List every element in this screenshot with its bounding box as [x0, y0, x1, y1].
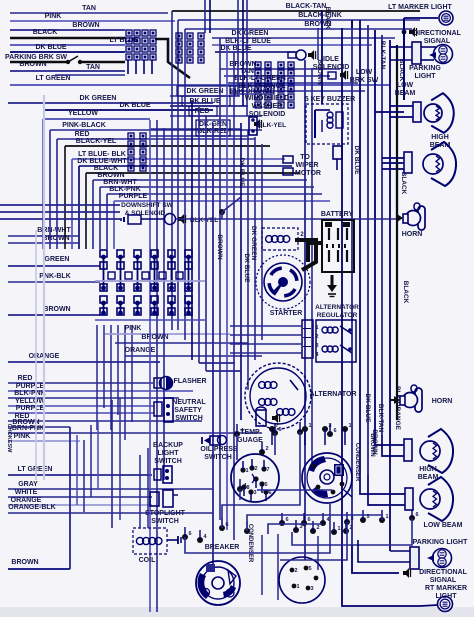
- svg-text:LIGHT: LIGHT: [158, 450, 180, 457]
- svg-text:1: 1: [296, 584, 299, 590]
- svg-text:CONDENSER: CONDENSER: [354, 443, 360, 482]
- svg-text:WASHER: WASHER: [252, 103, 283, 110]
- svg-text:DK BLUE: DK BLUE: [189, 98, 220, 105]
- svg-text:PURPLE: PURPLE: [16, 405, 45, 412]
- svg-text:3: 3: [350, 516, 353, 522]
- svg-text:DIRECTIONAL: DIRECTIONAL: [419, 569, 468, 576]
- svg-text:SIGNAL: SIGNAL: [424, 38, 451, 45]
- svg-text:DK GREEN: DK GREEN: [187, 88, 224, 95]
- svg-text:DK GREEN: DK GREEN: [80, 95, 117, 102]
- svg-text:BLK-TAN: BLK-TAN: [377, 404, 384, 433]
- svg-text:CHOKESW: CHOKESW: [6, 424, 12, 454]
- svg-text:SWITCH: SWITCH: [151, 518, 179, 525]
- svg-text:BROWN: BROWN: [11, 559, 38, 566]
- svg-text:SOLENOID: SOLENOID: [313, 64, 350, 71]
- svg-text:BATTERY: BATTERY: [321, 211, 354, 218]
- svg-text:DK BLUE: DK BLUE: [119, 102, 150, 109]
- svg-text:DOWNSHIFT SW: DOWNSHIFT SW: [121, 202, 173, 209]
- svg-text:BROWN: BROWN: [97, 172, 124, 179]
- svg-text:LT MARKER LIGHT: LT MARKER LIGHT: [388, 4, 452, 11]
- svg-text:& SOLENOID: & SOLENOID: [125, 210, 166, 217]
- svg-text:PURPLE: PURPLE: [119, 193, 148, 200]
- svg-text:BREAKER: BREAKER: [205, 544, 240, 551]
- svg-text:6: 6: [307, 517, 310, 523]
- svg-text:2: 2: [349, 525, 352, 531]
- svg-text:ALTERNATOR: ALTERNATOR: [309, 391, 356, 398]
- svg-text:6: 6: [285, 517, 288, 523]
- svg-text:BLK-PNK: BLK-PNK: [14, 390, 46, 397]
- svg-text:STOPLIGHT: STOPLIGHT: [145, 510, 186, 517]
- svg-text:IDLE: IDLE: [323, 56, 339, 63]
- svg-text:RED: RED: [195, 108, 210, 115]
- svg-text:1: 1: [245, 468, 248, 474]
- svg-text:8: 8: [246, 485, 249, 491]
- svg-text:REGULATOR: REGULATOR: [317, 312, 358, 319]
- svg-text:6: 6: [225, 522, 228, 528]
- svg-text:DK BLUE: DK BLUE: [238, 158, 245, 188]
- svg-text:BLK-LT BLUE: BLK-LT BLUE: [225, 38, 271, 45]
- svg-text:PINK: PINK: [125, 325, 142, 332]
- svg-text:LIGHT: LIGHT: [415, 73, 437, 80]
- svg-text:PINK-BLACK: PINK-BLACK: [62, 122, 106, 129]
- svg-text:PARKING: PARKING: [409, 65, 441, 72]
- svg-text:5: 5: [264, 482, 267, 488]
- svg-text:SWITCH: SWITCH: [204, 454, 232, 461]
- svg-text:RT MARKER: RT MARKER: [425, 585, 467, 592]
- svg-text:YELLOW: YELLOW: [68, 110, 98, 117]
- svg-text:PURPLE: PURPLE: [16, 383, 45, 390]
- svg-text:DIRECTIONAL: DIRECTIONAL: [413, 30, 462, 37]
- svg-text:FLASHER: FLASHER: [173, 378, 206, 385]
- svg-text:BRN-PNK: BRN-PNK: [12, 425, 44, 432]
- svg-text:5 KEY BUZZER: 5 KEY BUZZER: [305, 96, 355, 103]
- svg-text:ORANGE-BLK: ORANGE-BLK: [8, 504, 55, 511]
- svg-text:STARTER: STARTER: [270, 310, 303, 317]
- svg-text:PARKING LIGHT: PARKING LIGHT: [413, 539, 468, 546]
- svg-text:PINK: PINK: [14, 433, 31, 440]
- svg-text:BLACK: BLACK: [94, 165, 119, 172]
- svg-text:BLK-TAN: BLK-TAN: [379, 41, 386, 70]
- svg-text:DK GREEN: DK GREEN: [232, 30, 269, 37]
- svg-text:RED: RED: [75, 131, 90, 138]
- svg-text:HIGH: HIGH: [419, 466, 437, 473]
- svg-text:6: 6: [268, 490, 271, 496]
- svg-text:NEUTRAL: NEUTRAL: [172, 399, 206, 406]
- svg-text:BROWN: BROWN: [43, 306, 70, 313]
- svg-text:LOW BEAM: LOW BEAM: [424, 522, 463, 529]
- svg-text:GREEN: GREEN: [45, 256, 70, 263]
- svg-text:5: 5: [278, 427, 281, 433]
- svg-text:BLK-YEL: BLK-YEL: [190, 217, 218, 224]
- svg-text:TO: TO: [300, 154, 310, 161]
- svg-text:1: 1: [308, 423, 311, 429]
- svg-text:ORANGE: ORANGE: [125, 347, 156, 354]
- svg-text:2: 2: [254, 466, 257, 472]
- svg-text:3: 3: [310, 586, 313, 592]
- svg-text:MOTOR: MOTOR: [295, 170, 321, 177]
- svg-text:YELLOW: YELLOW: [15, 398, 45, 405]
- svg-text:DK BLUE: DK BLUE: [364, 394, 371, 424]
- svg-text:2: 2: [316, 525, 319, 531]
- svg-text:TAN: TAN: [82, 5, 96, 12]
- svg-text:BLACK-TAN: BLACK-TAN: [286, 3, 327, 10]
- svg-text:BLACK: BLACK: [400, 172, 407, 195]
- svg-text:HORN: HORN: [432, 398, 453, 405]
- svg-text:6: 6: [415, 512, 418, 518]
- svg-text:WINDSHIELD: WINDSHIELD: [245, 95, 289, 102]
- svg-text:LT BLUE- BLK: LT BLUE- BLK: [78, 151, 126, 158]
- svg-text:2: 2: [265, 446, 268, 452]
- svg-text:LT GREEN: LT GREEN: [18, 466, 53, 473]
- svg-text:WIPER: WIPER: [296, 162, 319, 169]
- svg-text:BLACK-YEL: BLACK-YEL: [76, 138, 117, 145]
- svg-text:DK BLUE: DK BLUE: [243, 254, 250, 284]
- svg-text:BLACK: BLACK: [33, 29, 58, 36]
- svg-text:BROWN: BROWN: [72, 22, 99, 29]
- svg-text:DK GREEN: DK GREEN: [250, 226, 257, 261]
- svg-text:2: 2: [294, 568, 297, 574]
- svg-text:BLK-PNK: BLK-PNK: [109, 186, 141, 193]
- svg-text:6: 6: [188, 531, 191, 537]
- svg-text:BLK-YEL: BLK-YEL: [258, 122, 286, 129]
- svg-text:LOW: LOW: [397, 82, 414, 89]
- svg-text:5: 5: [308, 566, 311, 572]
- svg-text:DK BLUE: DK BLUE: [35, 44, 66, 51]
- svg-text:ORANGE: ORANGE: [11, 497, 42, 504]
- svg-text:RED: RED: [18, 375, 33, 382]
- svg-text:ALTERNATOR: ALTERNATOR: [315, 304, 359, 311]
- svg-text:SWITCH: SWITCH: [154, 458, 182, 465]
- svg-text:BRK SW: BRK SW: [350, 77, 379, 84]
- svg-text:GRAY: GRAY: [18, 481, 38, 488]
- svg-text:BROWN: BROWN: [369, 433, 375, 456]
- svg-text:BLACK: BLACK: [324, 7, 331, 30]
- svg-text:7: 7: [266, 467, 269, 473]
- svg-text:DK BLUE-WHT: DK BLUE-WHT: [77, 158, 127, 165]
- svg-text:HIGH: HIGH: [431, 134, 449, 141]
- svg-text:TAN: TAN: [86, 64, 100, 71]
- svg-text:SIGNAL: SIGNAL: [430, 577, 457, 584]
- svg-text:1: 1: [337, 526, 340, 532]
- svg-text:DK BLUE: DK BLUE: [353, 146, 360, 176]
- svg-text:PINK: PINK: [45, 13, 62, 20]
- svg-text:1: 1: [385, 514, 388, 520]
- svg-text:3: 3: [253, 490, 256, 496]
- svg-text:1: 1: [348, 423, 351, 429]
- svg-text:HORN: HORN: [402, 231, 423, 238]
- svg-text:BRN-WHT: BRN-WHT: [103, 179, 137, 186]
- svg-text:3: 3: [303, 426, 306, 432]
- svg-text:COIL: COIL: [139, 557, 156, 564]
- svg-text:SAFETY: SAFETY: [174, 407, 202, 414]
- svg-text:SWITCH: SWITCH: [175, 415, 203, 422]
- svg-text:WHITE: WHITE: [15, 489, 38, 496]
- svg-text:LT GREEN: LT GREEN: [36, 75, 71, 82]
- svg-text:GUAGE: GUAGE: [237, 437, 263, 444]
- svg-text:BEAM: BEAM: [395, 90, 416, 97]
- svg-text:OIL PRESS: OIL PRESS: [200, 446, 238, 453]
- svg-text:BLACK: BLACK: [402, 281, 409, 304]
- svg-text:BACKUP: BACKUP: [153, 442, 183, 449]
- svg-text:BLACK-PINK: BLACK-PINK: [298, 12, 342, 19]
- svg-text:BROWN: BROWN: [216, 234, 223, 260]
- svg-text:LOW: LOW: [356, 69, 373, 76]
- svg-text:PARKING BRK SW: PARKING BRK SW: [5, 54, 67, 61]
- svg-text:6: 6: [333, 428, 336, 434]
